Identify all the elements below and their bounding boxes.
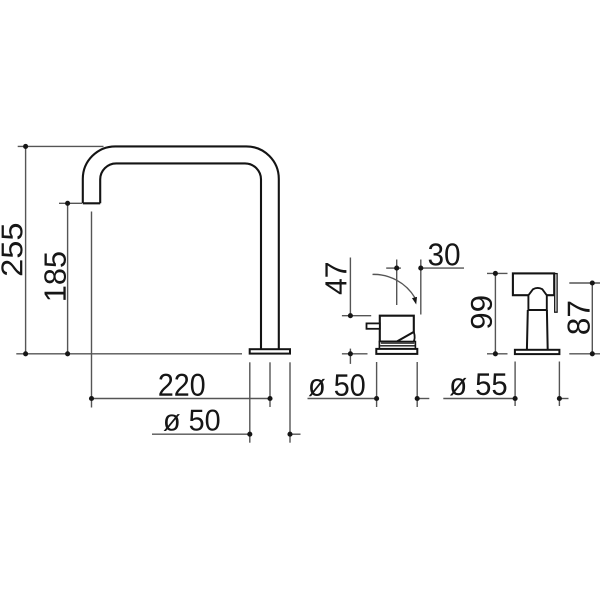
label o50L: [164, 410, 220, 432]
wire: mixer flange right extension: [416, 362, 418, 407]
wire: 47 dimension lower segment: [349, 349, 351, 364]
node: ø55 right: [557, 396, 562, 401]
wire: spout flange left extension: [249, 362, 251, 442]
wire: 255 top tick: [18, 145, 104, 147]
wire: 87 top tick: [569, 282, 600, 284]
wire: ø55 right tail: [559, 398, 568, 400]
node: mixer ø50 right: [415, 396, 420, 401]
node: mixer ø50 left: [374, 396, 379, 401]
wire: spout ø50 right tail: [290, 433, 301, 435]
wire: 220 dimension line: [92, 398, 271, 400]
lever swing arc: [373, 274, 415, 297]
label 99: [471, 296, 492, 328]
wire: 185 top tick: [59, 202, 82, 204]
handle cap: [513, 273, 554, 295]
wire: mixer ø50 lead-in line: [308, 398, 377, 400]
wire: mixer flange left extension: [376, 362, 378, 407]
mixer base neck block: [379, 342, 415, 349]
handle lever strip: [555, 274, 557, 313]
node: 87 bottom: [590, 351, 595, 356]
wire: spout base centre extension: [269, 362, 271, 407]
label o50M: [309, 374, 365, 396]
node: spout ø50 right: [287, 432, 292, 437]
wire: 99 dimension vertical: [494, 273, 496, 353]
spout inner profile: [100, 163, 261, 349]
wire: mixer ø50 right tail: [417, 398, 429, 400]
mixer lever: [367, 323, 380, 328]
label 30: [429, 243, 460, 265]
wire: mixer pivot centre line: [396, 260, 398, 306]
wire: baseline deck line: [16, 353, 242, 355]
node: 220 left: [89, 396, 94, 401]
wire: 30 leader line: [421, 267, 464, 269]
wire: 185 dimension vertical: [67, 203, 69, 353]
spout outer profile: [83, 146, 279, 349]
wire: ø55 lead-in line: [443, 398, 515, 400]
wire: handle flange right extension: [558, 362, 560, 407]
wire: 87 bottom tick: [569, 353, 600, 355]
wire: 99 top tick: [487, 272, 508, 274]
wire: 47 lower tick: [342, 353, 368, 355]
node: ø55 left: [513, 396, 518, 401]
wire: spout flange right extension: [289, 362, 291, 442]
node: 185 bottom: [65, 351, 70, 356]
wire: 47 dimension upper segment: [349, 258, 351, 316]
handle base flange: [515, 350, 560, 354]
lever swing arrowhead: [412, 297, 417, 305]
node: 185 top: [65, 201, 70, 206]
node: 255 top: [23, 144, 28, 149]
node: spout ø50 left: [247, 432, 252, 437]
label 47: [325, 263, 346, 294]
mixer base neck joint upper: [381, 342, 414, 344]
wire: 30 right extension: [420, 260, 422, 315]
label 185: [44, 252, 66, 300]
mixer base flange: [376, 349, 417, 354]
node: 87 top: [590, 280, 595, 285]
label 87: [567, 302, 590, 334]
wire: 47 upper tick: [342, 315, 371, 317]
node: 30 left: [394, 266, 399, 271]
node: 99 bottom: [493, 351, 498, 356]
node: 47 bottom: [348, 351, 353, 356]
spout outlet end: [83, 202, 100, 204]
wire: spout ø50 lead-in line: [152, 433, 250, 435]
label 220: [159, 374, 204, 396]
node: 255 bottom: [23, 351, 28, 356]
wire: 99 bottom tick: [487, 353, 508, 355]
node: 30 right: [418, 266, 423, 271]
mixer base neck joint lower: [380, 345, 415, 347]
handle dome neck: [528, 288, 546, 310]
mixer body: [380, 316, 414, 342]
mixer neck arc right: [413, 332, 415, 343]
node: 47 top: [348, 313, 353, 318]
node: 99 top: [493, 271, 498, 276]
wire: handle flange left extension: [514, 362, 516, 407]
node: 220 right: [267, 396, 272, 401]
wire: 87 dimension vertical: [591, 283, 593, 354]
wire: 255 dimension vertical: [25, 146, 27, 353]
handle stem: [527, 310, 548, 350]
label 255: [1, 224, 22, 275]
label o55: [450, 373, 507, 395]
spout base flange: [250, 349, 290, 353]
wire: 30 left tick: [386, 267, 401, 269]
wire: spout outlet centre extension: [91, 212, 93, 408]
